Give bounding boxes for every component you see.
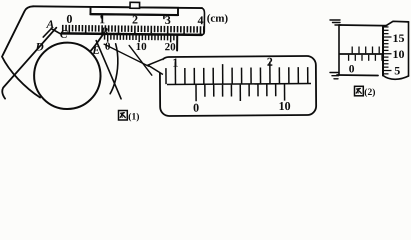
sleeve top edge — [339, 24, 386, 27]
svg-text:(2): (2) — [364, 87, 375, 98]
caliper vernier ticks — [105, 35, 174, 43]
caliper beam bottom edge — [62, 33, 202, 34]
slider bar bottom thick edge — [90, 13, 177, 16]
fixed jaw inner tangent edge — [2, 27, 56, 99]
svg-text:15: 15 — [393, 31, 405, 45]
callout line upper — [104, 44, 149, 66]
fig2 caption glyph — [355, 86, 364, 96]
svg-text:2: 2 — [267, 55, 273, 69]
fixed jaw tip caret right leg — [51, 29, 60, 34]
slider leg left — [100, 14, 102, 18]
inset callout wedge — [148, 59, 163, 75]
svg-text:E: E — [91, 45, 100, 57]
micrometer thimble ticks — [384, 27, 392, 74]
svg-text:3: 3 — [165, 13, 171, 27]
inset vernier ticks — [196, 84, 285, 101]
slider bar — [90, 7, 178, 15]
callout line lower — [129, 45, 152, 75]
movable jaw blade inner curved edge — [110, 44, 118, 94]
svg-text:2: 2 — [132, 13, 138, 27]
svg-text:10: 10 — [279, 99, 291, 113]
svg-text:(1): (1) — [128, 111, 139, 122]
svg-text:0: 0 — [193, 101, 199, 115]
sleeve left edge — [338, 25, 340, 75]
svg-text:20: 20 — [165, 41, 177, 53]
movable jaw curved measuring edge (B to ball at E) — [90, 33, 104, 52]
svg-text:10: 10 — [393, 47, 405, 61]
svg-text:A: A — [45, 19, 54, 31]
micrometer sleeve ticks — [349, 47, 382, 61]
caliper beam right end edge — [201, 8, 204, 35]
fixed jaw outer claw edge — [2, 57, 41, 98]
svg-text:C: C — [60, 29, 68, 41]
thimble top edge — [386, 21, 409, 25]
spindle stub bottom — [330, 73, 339, 79]
svg-text:10: 10 — [136, 41, 148, 53]
svg-text:1: 1 — [172, 55, 178, 69]
thimble bottom curve — [383, 76, 409, 80]
sleeve reference line — [340, 53, 384, 55]
svg-text:D: D — [34, 41, 44, 53]
caliper head rounded corner + left edge — [3, 6, 34, 56]
slider leg right — [163, 15, 165, 19]
svg-text:4: 4 — [198, 13, 204, 27]
ball circle — [34, 42, 101, 109]
sleeve bottom edge — [337, 74, 378, 77]
svg-text:5: 5 — [394, 63, 400, 77]
caliper beam top edge — [33, 6, 202, 8]
main scale numbers — [66, 11, 228, 27]
svg-text:0: 0 — [105, 41, 111, 53]
fixed jaw tip caret left leg — [43, 29, 51, 38]
fig1 caption glyph — [119, 111, 128, 121]
vernier labels — [105, 41, 176, 54]
inset main ticks — [166, 61, 308, 84]
svg-text:(cm): (cm) — [207, 13, 229, 25]
main scale ticks — [63, 25, 204, 35]
movable jaw blade outer edge — [96, 41, 122, 99]
locking knob — [130, 2, 140, 8]
thimble right edge — [408, 22, 410, 76]
spindle stub top — [330, 20, 341, 25]
inset rounded box — [160, 56, 316, 116]
thimble left edge — [382, 27, 384, 76]
svg-text:B: B — [99, 26, 108, 38]
svg-text:0: 0 — [349, 63, 355, 75]
svg-text:0: 0 — [66, 12, 72, 26]
point labels — [34, 19, 108, 57]
inset interface line — [167, 83, 311, 84]
vernier plate right edge — [176, 35, 178, 51]
svg-text:1: 1 — [99, 12, 105, 26]
